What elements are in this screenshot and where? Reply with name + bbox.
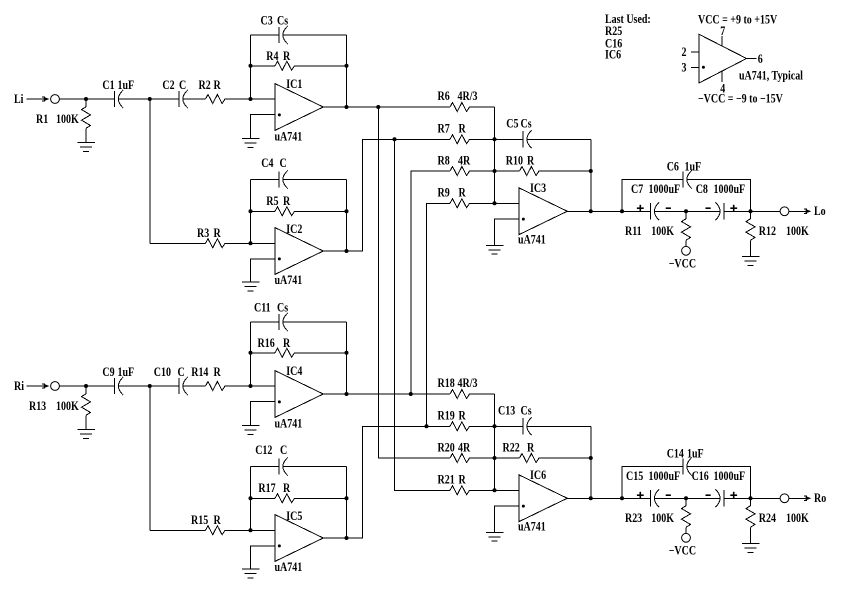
- svg-text:C13: C13: [498, 405, 515, 418]
- resistor R18: [450, 390, 470, 399]
- junction: [249, 384, 253, 388]
- wire feedback right vertical of IC5: [346, 467, 348, 539]
- svg-text:C: C: [280, 157, 287, 170]
- svg-text:4R/3: 4R/3: [458, 90, 478, 103]
- svg-text:R13: R13: [29, 400, 46, 413]
- capacitor C9: [114, 378, 116, 394]
- resistor R24 to ground: [750, 498, 752, 506]
- junction: [249, 209, 253, 213]
- junction: [493, 424, 497, 428]
- wire IC4 output up to R8: [411, 171, 450, 394]
- svg-text:uA741, Typical: uA741, Typical: [739, 70, 803, 83]
- svg-text:6: 6: [758, 53, 763, 66]
- resistor R13 lead: [85, 386, 87, 394]
- op-amp IC5: [275, 515, 324, 562]
- wire non-inverting input of IC5 to ground: [251, 546, 275, 569]
- wire R7 node down to R21: [395, 139, 451, 490]
- svg-text:C11: C11: [254, 302, 271, 315]
- svg-text:C3: C3: [260, 15, 273, 28]
- wire output arrow Lo: [789, 209, 811, 213]
- svg-text:−VCC: −VCC: [669, 258, 696, 271]
- svg-text:R7: R7: [438, 123, 451, 136]
- wire non-inverting input of IC1 to ground: [251, 115, 275, 139]
- junction: [589, 169, 593, 173]
- wire: [527, 138, 591, 140]
- svg-text:R6: R6: [438, 90, 451, 103]
- junction: [345, 536, 349, 540]
- junction: [148, 97, 152, 101]
- svg-text:uA741: uA741: [274, 274, 302, 287]
- svg-text:C2: C2: [162, 79, 175, 92]
- resistor R15: [206, 526, 225, 535]
- wire: [183, 98, 206, 100]
- wire: [469, 170, 495, 172]
- wire non-inverting input of IC6 to ground: [495, 506, 519, 532]
- resistor R9: [450, 199, 470, 208]
- svg-text:R12: R12: [759, 225, 776, 238]
- svg-text:R15: R15: [191, 514, 208, 527]
- resistor R1: [82, 107, 91, 129]
- wire: [283, 34, 347, 36]
- svg-text:2: 2: [682, 46, 687, 59]
- pin 4: [721, 71, 723, 81]
- svg-text:Ro: Ro: [814, 492, 827, 505]
- svg-text:4: 4: [720, 82, 725, 95]
- svg-text:Lo: Lo: [814, 205, 826, 218]
- junction: [749, 496, 753, 500]
- wire: [654, 210, 720, 212]
- wire summing bus vertical: [494, 107, 496, 203]
- wire: [495, 489, 519, 491]
- wire summing bus vertical: [494, 394, 496, 490]
- wire: [150, 529, 206, 531]
- svg-text:−VCC = −9 to −15V: −VCC = −9 to −15V: [698, 93, 784, 106]
- ground: [742, 257, 760, 266]
- resistor R2: [206, 95, 225, 104]
- svg-text:C16: C16: [692, 470, 709, 483]
- wire output of IC6: [567, 497, 650, 499]
- capacitor C12: [278, 458, 280, 474]
- svg-text:uA741: uA741: [274, 417, 302, 430]
- ground: [77, 430, 95, 439]
- wire R19 node up to R9: [427, 203, 451, 426]
- wire: [118, 385, 179, 387]
- svg-text:100K: 100K: [786, 225, 809, 238]
- svg-text:Cs: Cs: [520, 118, 532, 131]
- svg-text:uA741: uA741: [518, 234, 546, 247]
- terminal Ri: [51, 382, 60, 391]
- wire: [294, 352, 347, 354]
- junction: [84, 97, 88, 101]
- svg-text:1uF: 1uF: [118, 79, 135, 92]
- ground: [486, 532, 504, 541]
- wire: [251, 352, 276, 354]
- wire feedback left vertical of IC5: [250, 467, 252, 531]
- wire: [251, 497, 276, 499]
- wire: [495, 202, 519, 204]
- svg-text:100K: 100K: [56, 113, 79, 126]
- pin 6: [747, 58, 757, 60]
- capacitor C16: [723, 490, 725, 506]
- svg-text:R: R: [458, 474, 466, 487]
- svg-text:R: R: [527, 442, 535, 455]
- wire: [539, 170, 591, 172]
- resistor R7: [450, 135, 470, 144]
- wire: [251, 466, 280, 468]
- resistor R21: [450, 486, 470, 495]
- terminal Li: [51, 95, 60, 104]
- svg-text:IC1: IC1: [286, 78, 302, 91]
- wire: [654, 497, 720, 499]
- capacitor C11: [278, 314, 280, 330]
- terminal -VCC: [682, 533, 691, 542]
- capacitor C6 bypass loop: [622, 180, 683, 212]
- junction: [620, 209, 624, 213]
- svg-text:R3: R3: [197, 227, 210, 240]
- wire feedback left vertical of IC2: [250, 180, 252, 244]
- wire: [225, 242, 275, 244]
- svg-text:R14: R14: [191, 366, 208, 379]
- resistor R14: [206, 382, 225, 391]
- wire: [469, 425, 495, 427]
- wire: [183, 385, 206, 387]
- ground: [242, 569, 260, 578]
- svg-text:IC2: IC2: [286, 223, 302, 236]
- svg-text:R: R: [214, 514, 222, 527]
- svg-text:R: R: [214, 366, 222, 379]
- resistor R22 feedback: [495, 457, 520, 459]
- svg-text:R: R: [527, 155, 535, 168]
- resistor R8: [450, 167, 470, 176]
- svg-text:100K: 100K: [651, 512, 674, 525]
- svg-text:IC3: IC3: [530, 182, 546, 195]
- svg-text:C12: C12: [255, 444, 272, 457]
- svg-text:C8: C8: [696, 183, 709, 196]
- wire: [85, 415, 87, 429]
- svg-text:R18: R18: [438, 377, 455, 390]
- pin 2: [691, 51, 699, 53]
- wire: [527, 425, 591, 427]
- junction: [249, 97, 253, 101]
- wire: [469, 202, 495, 204]
- wire: [251, 321, 280, 323]
- svg-text:R1: R1: [36, 113, 49, 126]
- wire: [251, 34, 280, 36]
- junction: [620, 496, 624, 500]
- svg-text:C4: C4: [261, 157, 274, 170]
- svg-text:C5: C5: [506, 118, 519, 131]
- svg-text:R: R: [283, 482, 291, 495]
- svg-text:1uF: 1uF: [687, 448, 704, 461]
- svg-text:4R: 4R: [458, 155, 471, 168]
- terminal -VCC: [682, 246, 691, 255]
- svg-text:IC6: IC6: [605, 49, 621, 62]
- op-amp IC4: [275, 371, 324, 418]
- svg-text:R22: R22: [502, 442, 519, 455]
- resistor R23 to -VCC: [685, 498, 687, 506]
- wire: [225, 385, 275, 387]
- resistor R20: [450, 454, 470, 463]
- wire: [283, 466, 347, 468]
- svg-text:C1: C1: [102, 79, 115, 92]
- op-amp IC6: [519, 475, 568, 522]
- wire output of IC5 up to R19: [323, 426, 450, 538]
- wire: [294, 497, 347, 499]
- svg-text:Ri: Ri: [14, 380, 24, 393]
- wire: [469, 489, 495, 491]
- junction: [249, 64, 253, 68]
- svg-text:C9: C9: [102, 366, 115, 379]
- capacitor C2: [178, 91, 180, 107]
- resistor R10 feedback: [495, 170, 520, 172]
- svg-text:100K: 100K: [56, 400, 79, 413]
- resistor R4: [275, 61, 295, 70]
- svg-text:R: R: [214, 227, 222, 240]
- op-amp IC3: [519, 188, 568, 235]
- svg-text:7: 7: [720, 25, 725, 38]
- svg-text:R24: R24: [759, 512, 776, 525]
- svg-text:IC4: IC4: [286, 365, 302, 378]
- svg-text:R2: R2: [198, 79, 211, 92]
- junction: [684, 209, 688, 213]
- junction: [409, 392, 413, 396]
- wire feedback right vertical of IC4: [346, 322, 348, 394]
- wire non-inverting input of IC4 to ground: [251, 402, 275, 426]
- capacitor C10: [178, 378, 180, 394]
- junction: [249, 496, 253, 500]
- wire feedback left vertical of IC1: [250, 35, 252, 99]
- svg-text:1000uF: 1000uF: [648, 470, 680, 483]
- resistor R6: [450, 103, 470, 112]
- svg-text:100K: 100K: [786, 512, 809, 525]
- resistor R3: [206, 239, 225, 248]
- svg-text:C: C: [178, 366, 185, 379]
- capacitor C15: [650, 490, 652, 506]
- wire feedback right vertical of mixer: [590, 139, 592, 211]
- svg-text:R: R: [458, 410, 466, 423]
- ground: [742, 544, 760, 553]
- junction: [249, 528, 253, 532]
- resistor R17: [275, 494, 295, 503]
- wire: [724, 210, 780, 212]
- resistor R16: [275, 348, 295, 357]
- capacitor C5 feedback: [495, 138, 524, 140]
- junction: [249, 241, 253, 245]
- wire feedback left vertical of IC4: [250, 322, 252, 386]
- wire: [59, 98, 114, 100]
- wire: [469, 457, 495, 459]
- pin 3: [691, 66, 699, 68]
- junction: [376, 105, 380, 109]
- junction: [148, 384, 152, 388]
- junction: [345, 392, 349, 396]
- resistor R19: [450, 422, 470, 431]
- svg-text:−VCC: −VCC: [669, 545, 696, 558]
- wire output of IC2 up to R7: [323, 139, 450, 251]
- svg-text:100K: 100K: [651, 225, 674, 238]
- wire: [150, 242, 206, 244]
- junction: [84, 384, 88, 388]
- svg-text:C7: C7: [631, 183, 644, 196]
- svg-text:C15: C15: [626, 470, 643, 483]
- svg-text:R11: R11: [625, 225, 642, 238]
- svg-text:Cs: Cs: [277, 302, 289, 315]
- wire: [283, 321, 347, 323]
- svg-text:R: R: [283, 337, 291, 350]
- svg-text:C14: C14: [667, 448, 684, 461]
- wire: [85, 128, 87, 142]
- capacitor C7: [650, 203, 652, 219]
- wire: [251, 210, 276, 212]
- wire: [294, 65, 347, 67]
- op-amp U-typical legend symbol: [699, 34, 747, 83]
- wire: [59, 385, 114, 387]
- op-amp IC2: [275, 228, 324, 275]
- wire input branch vertical: [149, 99, 151, 243]
- junction: [345, 105, 349, 109]
- capacitor C14 bypass loop: [622, 467, 683, 499]
- wire: [225, 529, 275, 531]
- wire: [294, 210, 347, 212]
- junction: [684, 496, 688, 500]
- resistor R1 lead: [85, 99, 87, 107]
- svg-text:1uF: 1uF: [684, 161, 701, 174]
- svg-text:R: R: [214, 79, 222, 92]
- svg-text:R20: R20: [438, 442, 455, 455]
- svg-text:R: R: [458, 123, 466, 136]
- capacitor C13 feedback: [495, 425, 524, 427]
- ground: [242, 139, 260, 148]
- wire feedback right vertical of IC1: [346, 35, 348, 107]
- svg-text:Cs: Cs: [277, 15, 289, 28]
- wire output of IC3: [567, 210, 650, 212]
- svg-text:R17: R17: [258, 482, 275, 495]
- svg-text:C10: C10: [154, 366, 171, 379]
- svg-text:R25: R25: [605, 25, 622, 38]
- resistor R5: [275, 207, 295, 216]
- svg-text:3: 3: [682, 62, 687, 75]
- svg-text:C: C: [280, 444, 287, 457]
- wire: [469, 138, 495, 140]
- ground: [486, 245, 504, 254]
- ground: [77, 143, 95, 152]
- svg-text:IC5: IC5: [286, 510, 302, 523]
- capacitor C4: [278, 171, 280, 187]
- wire: [251, 179, 280, 181]
- svg-text:1uF: 1uF: [118, 366, 135, 379]
- wire: [469, 393, 495, 395]
- svg-text:R19: R19: [438, 410, 455, 423]
- junction: [749, 209, 753, 213]
- ground: [242, 282, 260, 291]
- wire: [469, 106, 495, 108]
- wire non-inverting input of IC3 to ground: [495, 219, 519, 245]
- svg-text:R: R: [458, 187, 466, 200]
- wire input arrow to terminal Li: [26, 97, 49, 101]
- wire output arrow Ro: [789, 496, 811, 500]
- wire input branch vertical: [149, 386, 151, 530]
- junction: [249, 351, 253, 355]
- svg-text:C: C: [179, 79, 186, 92]
- ground: [242, 426, 260, 435]
- wire: [283, 179, 347, 181]
- capacitor C8: [723, 203, 725, 219]
- junction: [493, 137, 497, 141]
- svg-text:4R/3: 4R/3: [458, 377, 478, 390]
- svg-text:uA741: uA741: [274, 130, 302, 143]
- svg-text:VCC = +9 to +15V: VCC = +9 to +15V: [698, 14, 778, 27]
- junction: [589, 456, 593, 460]
- junction: [393, 137, 397, 141]
- wire output of IC1: [323, 106, 450, 108]
- svg-text:1000uF: 1000uF: [714, 470, 746, 483]
- svg-text:R16: R16: [258, 337, 275, 350]
- wire non-inverting input of IC2 to ground: [251, 259, 275, 282]
- wire input arrow to terminal Ri: [26, 384, 49, 388]
- svg-text:C6: C6: [667, 161, 680, 174]
- terminal Ro: [780, 494, 789, 503]
- svg-text:uA741: uA741: [518, 521, 546, 534]
- svg-text:R: R: [283, 195, 291, 208]
- resistor R11 to -VCC: [685, 211, 687, 219]
- resistor R12 to ground: [750, 211, 752, 219]
- wire: [251, 65, 276, 67]
- svg-text:Li: Li: [14, 93, 23, 106]
- op-amp IC1: [275, 84, 324, 131]
- svg-text:1000uF: 1000uF: [648, 183, 680, 196]
- svg-text:R5: R5: [266, 195, 279, 208]
- terminal Lo: [780, 207, 789, 216]
- svg-text:R21: R21: [438, 474, 455, 487]
- wire: [225, 98, 275, 100]
- wire feedback right vertical of IC2: [346, 180, 348, 252]
- wire output of IC4: [323, 393, 450, 395]
- junction: [425, 424, 429, 428]
- junction: [345, 249, 349, 253]
- svg-text:1000uF: 1000uF: [714, 183, 746, 196]
- svg-text:4R: 4R: [458, 442, 471, 455]
- wire feedback right vertical of mixer: [590, 426, 592, 498]
- resistor R13: [82, 394, 91, 415]
- svg-text:IC6: IC6: [530, 469, 546, 482]
- wire: [539, 457, 591, 459]
- capacitor C3: [278, 27, 280, 43]
- svg-text:Cs: Cs: [520, 405, 532, 418]
- svg-text:R10: R10: [506, 155, 523, 168]
- svg-text:uA741: uA741: [274, 561, 302, 574]
- wire: [118, 98, 179, 100]
- svg-text:R: R: [283, 50, 291, 63]
- svg-text:R8: R8: [438, 155, 451, 168]
- svg-text:R23: R23: [625, 512, 642, 525]
- wire IC1 output down to R20: [378, 107, 450, 458]
- capacitor C1: [114, 91, 116, 107]
- svg-text:R9: R9: [438, 187, 451, 200]
- wire: [724, 497, 780, 499]
- pin 7: [721, 36, 723, 46]
- svg-text:R4: R4: [266, 50, 279, 63]
